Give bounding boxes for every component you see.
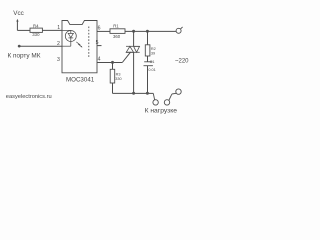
svg-text:4: 4 <box>98 56 101 62</box>
resistor R1 360 <box>110 29 125 34</box>
svg-text:0.01: 0.01 <box>148 68 155 72</box>
svg-text:330: 330 <box>115 77 121 81</box>
resistor R4 330 <box>30 28 42 32</box>
triac gate wire <box>122 52 130 63</box>
capacitor C1 0.01 <box>144 61 152 63</box>
svg-text:R1: R1 <box>113 24 119 29</box>
svg-text:R4: R4 <box>33 23 39 28</box>
wire Vcc to R4 <box>17 29 30 31</box>
pin 5 stub <box>97 45 102 47</box>
junction B <box>146 30 149 33</box>
wire pin 6 to R1 <box>97 30 110 32</box>
svg-text:Vcc: Vcc <box>13 10 23 17</box>
Vcc rail arrow <box>16 19 18 22</box>
wire triac to bottom <box>133 52 135 93</box>
node К порту МК terminal dot <box>18 45 21 48</box>
wire to right terminal <box>172 92 176 95</box>
LED D1 inside optocoupler <box>62 30 76 46</box>
wire snubber branch top <box>147 31 149 44</box>
wire port to pin 2 <box>19 45 62 47</box>
svg-text:6: 6 <box>98 25 101 31</box>
load terminal middle <box>164 100 169 105</box>
light arrows <box>76 42 82 48</box>
junction gate <box>111 61 114 64</box>
svg-text:360: 360 <box>113 34 121 39</box>
svg-text:3: 3 <box>57 57 60 63</box>
svg-text:39: 39 <box>151 51 155 55</box>
terminal right <box>176 89 181 94</box>
svg-text:R3: R3 <box>116 72 121 76</box>
svg-text:К нагрузке: К нагрузке <box>145 108 178 115</box>
svg-text:К порту МК: К порту МК <box>8 53 41 60</box>
triac VS1 <box>126 46 140 52</box>
svg-text:C1: C1 <box>150 60 155 64</box>
resistor R3 330 <box>110 69 115 83</box>
wire C1 to bottom wire <box>147 66 149 94</box>
optocoupler U1 MOC3041 body <box>62 21 97 73</box>
wire R2 to C1 <box>147 56 149 62</box>
wire pin 4 to gate junction <box>97 62 122 64</box>
svg-text:MOC3041: MOC3041 <box>66 76 95 83</box>
svg-text:330: 330 <box>32 32 40 37</box>
svg-text:R2: R2 <box>151 47 156 51</box>
wire R4 to pin 1 <box>42 29 62 31</box>
wire R1 to mains terminal <box>125 30 176 32</box>
svg-text:1: 1 <box>57 25 60 31</box>
terminal ~220 <box>176 28 181 33</box>
wire junction to R3 <box>112 63 114 70</box>
wire R3 to bottom wire <box>112 83 114 93</box>
resistor R2 39 <box>145 45 150 56</box>
junction snubber bottom <box>146 92 149 95</box>
svg-text:easyelectronics.ru: easyelectronics.ru <box>6 94 52 100</box>
junction A <box>132 30 135 33</box>
wire junction A to triac <box>133 31 135 46</box>
load terminal left <box>153 93 154 100</box>
phototriac dashed line <box>88 27 90 59</box>
bottom wire <box>113 92 154 94</box>
junction triac bottom <box>132 92 135 95</box>
svg-text:~220: ~220 <box>175 58 189 64</box>
svg-text:2: 2 <box>57 41 60 47</box>
